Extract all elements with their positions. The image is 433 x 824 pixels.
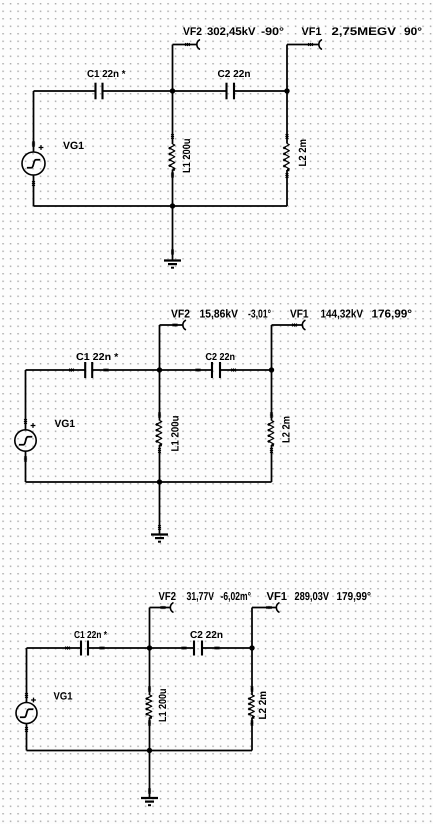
- VF2 magnitude value label: [200, 309, 238, 319]
- pin tick VF2: [173, 324, 176, 327]
- inductor L2 pin ticks: [270, 413, 273, 416]
- wire VF2 horizontal lead: [150, 607, 171, 609]
- VG1 pin ticks: [24, 419, 27, 422]
- wire right column: [286, 91, 288, 206]
- pin tick ground: [158, 525, 161, 528]
- wire left column: [33, 91, 35, 206]
- wire top rail: [27, 647, 253, 649]
- capacitor C2 label: [190, 631, 222, 638]
- probe tip VF2 (arc): [197, 40, 200, 49]
- pin ticks C1: [69, 369, 72, 372]
- VF1 magnitude value label: [332, 27, 396, 36]
- VF1 magnitude value label: [295, 592, 329, 602]
- wire VF2 vertical: [159, 325, 161, 370]
- pin ticks C2: [182, 647, 185, 650]
- wire ground lead: [149, 751, 151, 799]
- inductor L2 label: [282, 417, 289, 443]
- pin tick VF1: [292, 324, 295, 327]
- VF2 magnitude value label: [207, 27, 255, 37]
- pin tick ground: [171, 250, 174, 253]
- inductor L2 label: [259, 692, 266, 719]
- voltage generator VG1 label: [54, 692, 73, 699]
- wire VF1 vertical: [271, 325, 273, 370]
- probe tip VF2 (arc): [183, 320, 186, 329]
- inductor L2 label: [299, 140, 306, 166]
- probe tip VF2 (arc): [170, 603, 173, 612]
- inductor L2 coil: [268, 421, 274, 446]
- VF1 magnitude value label: [321, 309, 363, 319]
- capacitor C2 label: [206, 353, 235, 360]
- wire VF1 vertical: [251, 608, 253, 649]
- wire left column: [26, 648, 28, 751]
- inductor L1 coil: [156, 421, 162, 446]
- node junction dots: [170, 88, 175, 93]
- VG1 waveform symbol: [27, 160, 40, 168]
- node VF2 name label: [159, 592, 176, 600]
- VG1 plus sign: [31, 423, 36, 428]
- probe tip VF1 (arc): [302, 320, 305, 329]
- inductor L1 pin ticks: [158, 413, 161, 416]
- inductor L2 coil: [248, 695, 254, 717]
- ground symbol GND: [151, 533, 168, 535]
- VG1 waveform symbol: [19, 437, 32, 445]
- inductor L1 coil: [169, 144, 175, 169]
- node VF1 name label: [290, 310, 308, 318]
- inductor L1 coil: [146, 695, 152, 717]
- wire VF1 horizontal lead: [287, 44, 319, 46]
- capacitor C2 plates: [193, 641, 195, 656]
- inductor L2 coil: [283, 144, 289, 171]
- inductor L1 pin ticks: [148, 687, 151, 690]
- VF2 phase value label: [221, 592, 251, 602]
- voltage generator VG1 label: [55, 420, 75, 427]
- wire middle column: [172, 91, 174, 206]
- VG1 pin ticks: [25, 693, 28, 696]
- inductor L1 label: [159, 689, 166, 721]
- capacitor C2 plates: [211, 362, 213, 378]
- capacitor C1 plates: [84, 362, 86, 378]
- wire right column: [271, 370, 273, 482]
- node junction dots: [157, 367, 162, 372]
- inductor L2 pin ticks: [251, 687, 254, 690]
- voltage generator VG1 label: [63, 142, 84, 149]
- wire ground lead: [172, 206, 174, 261]
- wire middle column: [149, 648, 151, 751]
- probe tip VF1 (arc): [319, 40, 322, 49]
- node junction dots: [147, 645, 152, 650]
- probe tip VF1 (arc): [276, 603, 279, 612]
- ground symbol GND: [141, 797, 158, 799]
- wire top rail: [34, 90, 288, 92]
- wire VF1 vertical: [286, 45, 288, 92]
- inductor L1 label: [171, 416, 178, 451]
- wire bottom rail: [26, 481, 272, 483]
- pin tick VF2: [185, 43, 188, 46]
- wire middle column: [159, 370, 161, 482]
- node VF2 name label: [171, 309, 190, 317]
- pin tick ground: [148, 789, 151, 792]
- voltage generator VG1 circle: [15, 430, 36, 451]
- wire VF2 horizontal lead: [160, 324, 184, 326]
- capacitor C1 label: [74, 631, 107, 638]
- wire VF1 horizontal lead: [272, 324, 303, 326]
- VF2 phase value label: [248, 309, 270, 319]
- wire ground lead: [159, 482, 161, 535]
- inductor L1 label: [183, 139, 190, 172]
- VF1 phase value label: [337, 592, 370, 602]
- pin ticks C1: [65, 647, 68, 650]
- node VF1 name label: [267, 592, 287, 600]
- wire VF2 horizontal lead: [173, 44, 198, 46]
- capacitor C1 label: [76, 353, 118, 360]
- VF2 magnitude value label: [187, 592, 214, 602]
- node VF2 name label: [183, 27, 202, 35]
- VG1 waveform symbol: [20, 709, 33, 717]
- wire bottom rail: [34, 205, 288, 207]
- ground symbol GND: [164, 259, 181, 261]
- pin tick VF1: [308, 43, 311, 46]
- voltage generator VG1 circle: [22, 152, 45, 175]
- wire right column: [251, 648, 253, 751]
- wire bottom rail: [27, 750, 253, 752]
- pin ticks C2: [196, 369, 199, 372]
- VF2 phase value label: [261, 27, 283, 35]
- VF1 phase value label: [372, 309, 411, 319]
- capacitor C1 label: [87, 70, 125, 77]
- inductor L2 pin ticks: [286, 134, 289, 137]
- VG1 plus sign: [31, 698, 36, 703]
- capacitor C1 plates: [94, 83, 96, 100]
- inductor L1 pin ticks: [171, 134, 174, 137]
- pin tick VF2: [161, 606, 164, 609]
- wire left column: [25, 370, 27, 482]
- VF1 phase value label: [404, 27, 421, 35]
- wire VF2 vertical: [149, 608, 151, 649]
- voltage generator VG1 circle: [16, 703, 37, 724]
- capacitor C2 label: [218, 70, 250, 77]
- capacitor C1 plates: [80, 641, 82, 656]
- node VF1 name label: [302, 27, 322, 35]
- wire VF2 vertical: [172, 45, 174, 92]
- VG1 plus sign: [39, 145, 44, 150]
- pin tick VF1: [267, 606, 270, 609]
- capacitor C2 plates: [225, 83, 227, 100]
- wire top rail: [26, 369, 272, 371]
- VG1 pin ticks: [32, 142, 35, 145]
- wire VF1 horizontal lead: [252, 607, 277, 609]
